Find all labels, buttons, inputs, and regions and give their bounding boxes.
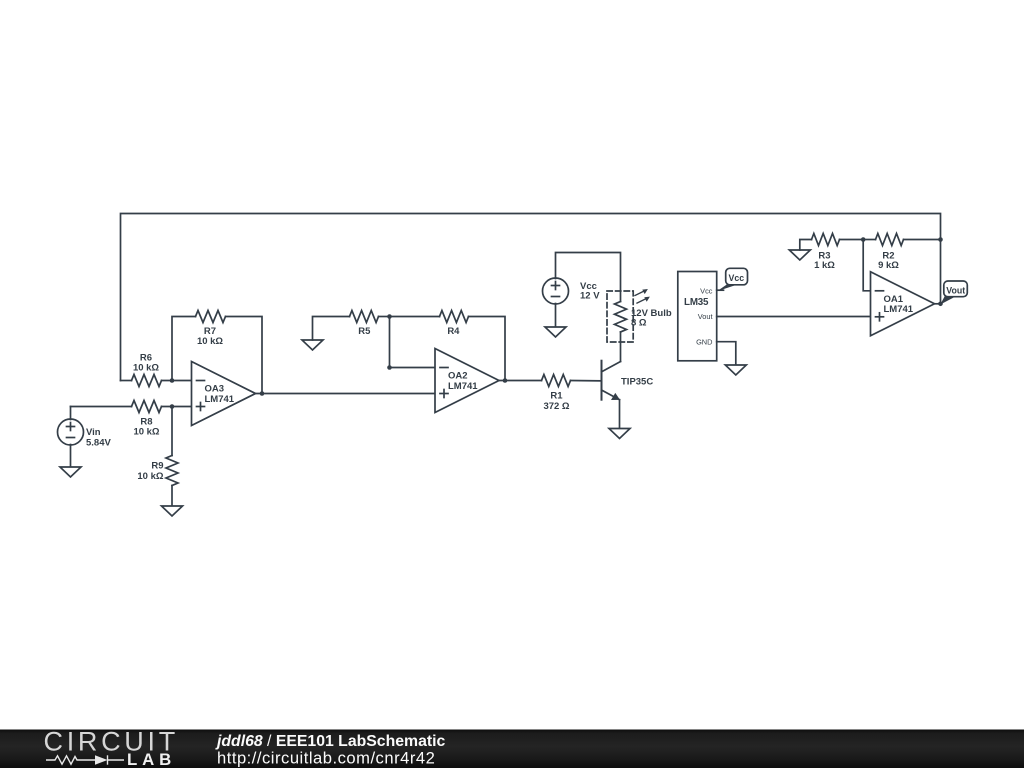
wire R3 right lead [840, 239, 864, 241]
wire R4 right down to OA2 output [469, 317, 506, 381]
ground below Q1 emitter [609, 429, 630, 439]
ground at LM35 GND [725, 365, 746, 375]
svg-text:http://circuitlab.com/cnr4r42: http://circuitlab.com/cnr4r42 [217, 748, 435, 767]
ground below R9 [162, 506, 183, 516]
junction node R3/R2 [861, 237, 866, 242]
wire R2 right lead to output rail [904, 239, 941, 241]
lamp 12V Bulb 8 ohm [607, 289, 672, 342]
svg-text:LM741: LM741 [448, 381, 478, 392]
wire R7 right branch down to OA3 output [226, 317, 263, 394]
wire LM35 Vcc pin stub [717, 289, 724, 291]
wire R7 left branch up [172, 317, 196, 381]
wire Vin bottom lead [70, 445, 72, 468]
junction node OA1 output Vout [938, 302, 943, 307]
wire LM35 GND pin to ground [717, 342, 736, 365]
svg-text:Vcc: Vcc [700, 286, 713, 295]
svg-text:TIP35C: TIP35C [621, 376, 653, 387]
net flag Vout on OA1 output [940, 281, 967, 305]
wire R2 leads [863, 239, 875, 241]
wire rail to R6 left lead [121, 380, 132, 382]
junction node OA2 output [503, 378, 508, 383]
wire junction down to OA1 inverting input [863, 240, 870, 291]
svg-text:10 kΩ: 10 kΩ [137, 471, 163, 482]
svg-text:10 kΩ: 10 kΩ [133, 427, 159, 438]
op-amp OA3 LM741 [192, 362, 256, 426]
svg-text:12 V: 12 V [580, 291, 600, 302]
net flag Vcc on LM35 Vcc pin [717, 268, 748, 291]
ground at R5 left [302, 340, 323, 350]
resistor R7 10 k&#937; [196, 311, 226, 347]
junction node OA3 non-inverting input [170, 404, 175, 409]
svg-text:R1: R1 [550, 390, 563, 401]
wire Vcc top to bulb [556, 253, 621, 302]
wire ground to R3 [800, 240, 812, 251]
voltage source Vin 5.84V [58, 419, 112, 449]
wire R6 right lead to OA3 inverting input [162, 380, 192, 382]
wire Vcc bottom lead [555, 304, 557, 328]
wire Vin to R8 [71, 406, 132, 408]
svg-text:10 kΩ: 10 kΩ [197, 336, 223, 347]
resistor R6 10 k&#937; [132, 352, 162, 386]
svg-text:Vout: Vout [946, 285, 965, 295]
svg-text:LM741: LM741 [205, 394, 235, 405]
junction dot at OA2 inverting elbow [387, 365, 392, 370]
junction node R2 output rail [938, 237, 943, 242]
IC U1 LM35 temperature sensor [678, 272, 717, 361]
wire ground to R5 [313, 317, 350, 341]
ground below Vin [60, 467, 81, 477]
svg-text:LM35: LM35 [684, 297, 709, 308]
footer bar [0, 730, 1024, 768]
svg-text:10 kΩ: 10 kΩ [133, 362, 159, 373]
svg-text:R5: R5 [358, 326, 371, 337]
junction node OA3 output [260, 391, 265, 396]
voltage source Vcc 12V [543, 278, 601, 304]
svg-text:LM741: LM741 [884, 304, 914, 315]
svg-text:R9: R9 [151, 461, 163, 472]
svg-text:5.84V: 5.84V [86, 438, 111, 449]
wire OA2 output to R1 [499, 380, 542, 382]
ground below Vcc [545, 327, 566, 337]
wire OA1 output stub [935, 303, 941, 305]
svg-text:Vout: Vout [698, 312, 713, 321]
wire Q1 emitter to ground [619, 400, 621, 429]
resistor R8 10 k&#937; [132, 401, 162, 438]
svg-text:8 Ω: 8 Ω [631, 317, 647, 328]
wire R5 right lead [379, 316, 390, 318]
wire R8 right lead to OA3 non-inverting input [162, 406, 192, 408]
svg-text:9 kΩ: 9 kΩ [878, 260, 899, 271]
svg-text:372 Ω: 372 Ω [543, 401, 569, 412]
wire top feedback rail from OA1 output to R6 [121, 214, 941, 381]
svg-text:Vcc: Vcc [728, 273, 744, 283]
resistor R3 1 k&#937; [812, 234, 840, 271]
transistor Q1 TIP35C [602, 361, 654, 400]
wire R9 top lead [171, 407, 173, 456]
wire bulb bottom to Q1 collector [620, 332, 622, 362]
ground at R3 left [789, 250, 810, 260]
CircuitLab logo resistor-diode glyph [46, 755, 124, 764]
op-amp OA2 LM741 [435, 349, 499, 413]
op-amp OA1 LM741 [871, 272, 935, 336]
resistor R2 9 k&#937; [876, 234, 904, 271]
svg-text:LAB: LAB [127, 750, 176, 768]
wire OA1 output vertical segment [940, 240, 942, 304]
svg-text:1 kΩ: 1 kΩ [814, 260, 835, 271]
junction node OA3 inverting input [170, 378, 175, 383]
junction node R5/R4 [387, 314, 392, 319]
resistor R4 [440, 311, 469, 338]
resistor R5 [350, 311, 379, 338]
wire Vin top lead [70, 407, 72, 420]
wire R5 junction to R4 [390, 316, 440, 318]
resistor R1 372 &#937; [542, 375, 571, 412]
svg-text:Vin: Vin [86, 427, 101, 438]
wire junction down to OA2 inverting input [390, 317, 436, 368]
wire R1 to Q1 base [571, 380, 602, 382]
resistor R9 10 k&#937; [137, 456, 178, 486]
wire LM35 Vout pin to OA1 non-inverting input [717, 316, 871, 318]
svg-text:R4: R4 [447, 326, 460, 337]
wire OA3 output to OA2 non-inverting input [256, 393, 436, 395]
svg-text:GND: GND [696, 338, 712, 347]
wire R9 bottom lead [171, 486, 173, 507]
